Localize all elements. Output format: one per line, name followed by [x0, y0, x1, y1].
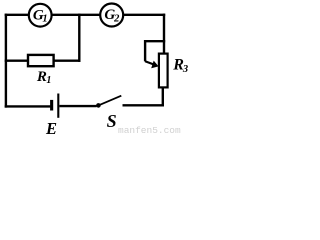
- svg-text:2: 2: [113, 14, 120, 25]
- svg-text:3: 3: [182, 64, 188, 75]
- svg-text:E: E: [45, 119, 57, 135]
- svg-text:1: 1: [46, 75, 51, 86]
- svg-text:R: R: [36, 69, 47, 85]
- svg-text:S: S: [107, 111, 117, 131]
- svg-text:1: 1: [42, 14, 47, 25]
- svg-text:manfen5.com: manfen5.com: [118, 125, 181, 135]
